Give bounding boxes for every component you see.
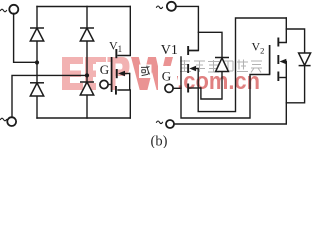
AC terminal T1' tilde	[157, 6, 163, 9]
arrow lead wire	[124, 73, 130, 75]
watermark gray chinese char 5	[237, 60, 248, 72]
wire from T1' right and down to V1 drain	[176, 6, 199, 50]
branch wire to middle diode cathode	[198, 32, 222, 57]
diode VD1 (top-left)	[30, 28, 44, 41]
transistor V1 channel dashes	[115, 49, 118, 95]
watermark gray chinese char 2	[194, 61, 205, 72]
V1 body/source vertical down, right, and up to top link	[198, 18, 286, 112]
diode VD4 (bottom-right)	[80, 82, 94, 95]
bridge bottom rail	[37, 117, 130, 119]
transistor V1 gate bar	[111, 57, 113, 92]
junction dot right column	[85, 73, 89, 77]
V1' arrow lead wire	[196, 68, 199, 70]
transistor V1 (left circuit) drain branch	[118, 7, 130, 119]
right column wires	[86, 7, 88, 119]
right diode (anti-parallel to V2)	[299, 53, 311, 66]
AC terminal T1' circle	[167, 2, 176, 11]
white box under right G label	[158, 66, 177, 94]
wire from T1 down and right to bridge left column	[14, 14, 37, 63]
watermark letter W	[131, 57, 173, 90]
watermark letter E1	[62, 57, 83, 90]
watermark gray chinese char 4	[223, 61, 233, 71]
white box under huo character	[139, 65, 152, 79]
right diode branch top link	[286, 29, 304, 53]
watermark letter E2	[85, 57, 106, 90]
V2 body/source vertical down to bottom wire	[174, 62, 286, 125]
watermark gray chinese char 3	[208, 60, 219, 72]
transistor V2 substrate arrow	[280, 59, 287, 64]
V2 drain lead up	[279, 18, 286, 43]
V1 source stub down to diode anode link	[201, 72, 222, 100]
AC terminal T2' circle	[166, 120, 174, 128]
middle diode (anti-parallel to V1')	[215, 58, 229, 72]
V1 gate bar extended down and across to V2 gate	[181, 57, 270, 118]
G wire from terminal to gate bar	[173, 87, 181, 89]
junction dot left column	[35, 60, 39, 64]
transistor V1' drain lead	[189, 50, 198, 52]
G terminal circle (right)	[165, 84, 173, 92]
bridge top rail	[37, 6, 130, 8]
watermark gray chinese char 6	[251, 61, 262, 73]
right diode branch bottom link	[286, 66, 304, 103]
AC terminal T1 circle	[9, 5, 18, 14]
transistor V1 substrate arrow	[118, 71, 125, 77]
wire body/source vertical down to bottom rail	[118, 74, 130, 119]
svg-text:(b): (b)	[151, 134, 168, 149]
svg-text:G: G	[162, 68, 171, 83]
AC terminal T1 tilde	[1, 9, 7, 12]
white box under left G label	[96, 62, 111, 91]
watermark gray chinese char 1	[180, 60, 191, 72]
gate wire from G terminal	[108, 84, 111, 86]
AC terminal T2 tilde	[1, 118, 7, 121]
transistor V2 channel dashes	[277, 38, 279, 82]
diode VD2 (top-right)	[80, 28, 94, 41]
transistor V1' channel dashes	[187, 46, 189, 93]
G terminal circle (left)	[100, 80, 108, 88]
V2 arrow lead wire	[285, 61, 286, 63]
wire from T2 up and right to bridge right column	[12, 75, 87, 117]
wire top rail down to drain lead	[118, 7, 130, 56]
V2 source lead wire	[279, 77, 286, 79]
watermark letter P	[108, 57, 130, 90]
AC terminal T2 circle	[7, 117, 16, 126]
svg-text:G: G	[100, 62, 109, 77]
V1' source lead wire	[189, 87, 201, 89]
left column wires	[36, 7, 38, 119]
AC terminal T2' tilde	[157, 121, 163, 124]
character huo (or)	[141, 66, 150, 76]
svg-text:V1: V1	[161, 43, 178, 58]
diode VD3 (bottom-left)	[30, 83, 44, 96]
transistor V2 gate bar	[269, 45, 271, 75]
transistor V1' substrate arrow	[189, 66, 196, 71]
